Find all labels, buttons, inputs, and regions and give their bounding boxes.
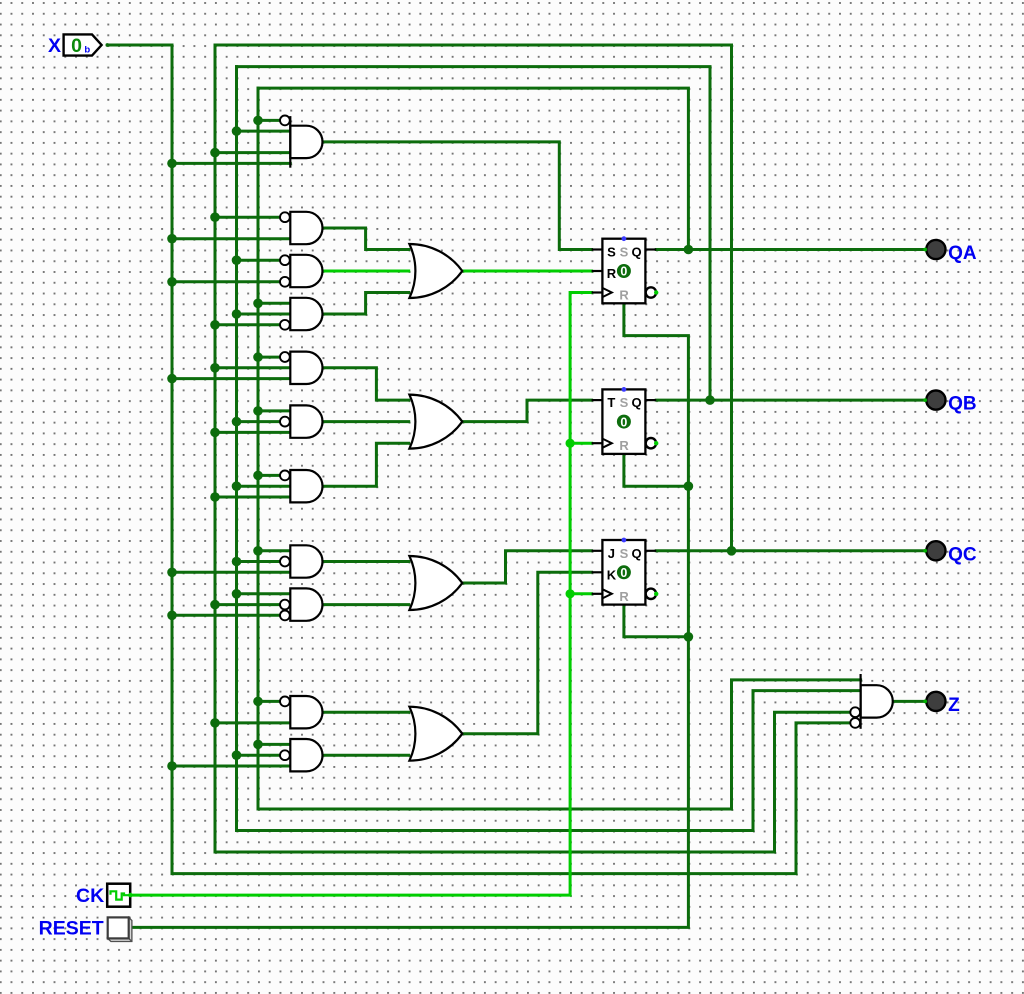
OR gate OR1 bbox=[409, 244, 462, 298]
LED QB bbox=[923, 391, 976, 415]
junction QB bus row 45 bbox=[232, 481, 242, 491]
junction X bus row 71 bbox=[167, 761, 177, 771]
wire FF2 Q to LED QB bbox=[656, 399, 925, 402]
junction QB bus row 29 bbox=[232, 309, 242, 319]
junction QA bus row 11 bbox=[253, 116, 263, 126]
T flip-flop U2 bbox=[592, 387, 659, 454]
junction QC bus row 46 bbox=[210, 492, 220, 502]
AND gate G2 (2-input, input 1 inverted) bbox=[280, 212, 322, 244]
wire QA bus tap row 69 bbox=[258, 743, 290, 746]
wire QB bus tap row 70 bbox=[237, 754, 280, 757]
svg-text:S: S bbox=[620, 546, 629, 561]
AND gate U5 for output Z (4-input, inputs 3 and 4 inverted) bbox=[850, 674, 892, 729]
junction X bus row 26 bbox=[167, 277, 177, 287]
junction QA bus row 51 bbox=[253, 546, 263, 556]
wire QC bus tap row 40 bbox=[215, 431, 290, 434]
svg-text:K: K bbox=[607, 567, 617, 582]
wire QA bus tap row 33 bbox=[258, 356, 280, 359]
junction QB bus row 12 bbox=[232, 126, 242, 136]
wire G10 output to OR4 input 1 bbox=[323, 711, 409, 714]
AND gate G3 (2-input, both inputs inverted) bbox=[280, 255, 322, 287]
AND gate G8 (3-input, input 2 inverted) bbox=[280, 545, 323, 577]
LED QC bbox=[923, 541, 977, 565]
junction QB bus row 39 bbox=[232, 417, 242, 427]
svg-text:Q: Q bbox=[631, 245, 641, 260]
wire FF1 Q to LED QA bbox=[656, 248, 925, 251]
wire QC feedback: top run, down to QC output line bbox=[215, 45, 732, 551]
wire X bus tap row 57 bbox=[172, 614, 280, 617]
wire OR1 output to FF1 R input (high) bbox=[463, 270, 592, 273]
AND gate G6 (3-input, input 2 inverted) bbox=[280, 405, 323, 437]
wire QC bus tap row 30 bbox=[215, 323, 280, 326]
J-K flip-flop U3 bbox=[592, 538, 659, 605]
LED Z bbox=[923, 692, 960, 716]
wire QB bus vertical and bottom run to Z gate input 2 bbox=[237, 67, 861, 831]
junction QC bus row 56 bbox=[210, 600, 220, 610]
svg-text:0: 0 bbox=[620, 415, 627, 429]
wire CK tap to FF2 clock input bbox=[570, 442, 592, 445]
wire Z gate output to LED Z bbox=[893, 700, 925, 703]
svg-text:Q: Q bbox=[631, 395, 641, 410]
AND gate G10 (2-input, input 1 inverted) bbox=[280, 696, 323, 728]
junction QA bus row 38 bbox=[253, 406, 263, 416]
svg-text:R: R bbox=[619, 589, 629, 604]
wire QC bus tap row 46 bbox=[215, 496, 290, 499]
junction X bus row 15 bbox=[167, 159, 177, 169]
wire QB bus tap row 55 bbox=[237, 592, 291, 595]
junction QC bus row 14 bbox=[210, 148, 220, 158]
OR gate OR2 bbox=[409, 395, 462, 449]
wire QC bus tap row 20 bbox=[215, 216, 280, 219]
wire QB bus tap row 45 bbox=[237, 485, 291, 488]
svg-text:R: R bbox=[619, 288, 629, 303]
svg-text:QC: QC bbox=[948, 544, 977, 565]
wire QA bus tap row 65 bbox=[258, 700, 280, 703]
wire QB bus tap row 24 bbox=[237, 259, 280, 262]
wire QB bus tap row 39 bbox=[237, 420, 280, 423]
wire RESET tap to FF2 async reset bbox=[624, 454, 689, 486]
junction QA bus row 65 bbox=[253, 697, 263, 707]
wire G6 output to OR2 input 2 bbox=[323, 420, 409, 423]
wire QA bus tap row 28 bbox=[258, 302, 290, 305]
wire RESET net: button to FF1 async reset bbox=[131, 303, 689, 927]
AND gate G9 (3-input, inputs 2 and 3 inverted) bbox=[280, 588, 322, 620]
svg-text:R: R bbox=[619, 438, 629, 453]
wire QB bus tap row 52 bbox=[237, 560, 280, 563]
svg-text:0: 0 bbox=[620, 265, 627, 279]
wire RESET tap to FF3 async reset bbox=[624, 605, 689, 637]
wire QA bus tap row 44 bbox=[258, 474, 280, 477]
junction RESET chain at FF2 bbox=[684, 481, 694, 491]
LED QA bbox=[923, 240, 977, 264]
clock input CK bbox=[76, 884, 133, 907]
wire X bus tap row 22 bbox=[172, 237, 290, 240]
svg-text:QA: QA bbox=[948, 243, 977, 264]
junction X bus row 53 bbox=[167, 568, 177, 578]
wire QC bus tap row 14 bbox=[215, 151, 290, 154]
wire QA feedback: top run, down to QA output line bbox=[258, 88, 688, 249]
svg-text:CK: CK bbox=[76, 885, 104, 907]
junction QA feedback on QA output line bbox=[684, 245, 694, 255]
wire X net: pin to bus, bottom run to Z gate input 4 bbox=[107, 45, 850, 874]
wire X bus tap row 26 bbox=[172, 280, 280, 283]
wire G5 output to OR2 input 1 bbox=[323, 368, 409, 400]
S-R flip-flop U1 bbox=[592, 236, 659, 303]
junction QC feedback on QC output line bbox=[727, 546, 737, 556]
svg-text:0: 0 bbox=[620, 566, 627, 580]
wire G3 output to OR1 input 2 (high) bbox=[323, 270, 409, 273]
svg-text:R: R bbox=[607, 266, 617, 281]
svg-text:RESET: RESET bbox=[39, 917, 104, 939]
OR gate OR4 bbox=[409, 707, 462, 761]
wire QA bus tap row 11 bbox=[258, 119, 280, 122]
wire QA bus tap row 38 bbox=[258, 409, 290, 412]
wire QC bus vertical and bottom run to Z gate input 3 bbox=[215, 45, 850, 852]
wire QB feedback: top run, down to QB output line bbox=[237, 67, 711, 401]
wire QC bus tap row 56 bbox=[215, 603, 280, 606]
junction CK net at FF2 clock bbox=[566, 439, 575, 448]
AND gate G7 (3-input, input 1 inverted) bbox=[280, 470, 323, 502]
wire QA bus vertical and bottom run to Z gate input 1 bbox=[258, 88, 861, 809]
wire X bus tap row 53 bbox=[172, 571, 290, 574]
svg-text:S: S bbox=[607, 245, 616, 260]
junction QC bus row 40 bbox=[210, 428, 220, 438]
wire QB bus tap row 12 bbox=[237, 130, 291, 133]
wire G9 output to OR3 input 2 bbox=[323, 603, 409, 606]
wire QC bus tap row 34 bbox=[215, 366, 290, 369]
svg-text:QB: QB bbox=[948, 394, 977, 415]
junction CK net at FF3 clock bbox=[566, 589, 575, 598]
svg-text:S: S bbox=[620, 245, 629, 260]
junction QC bus row 30 bbox=[210, 320, 220, 330]
svg-text:0: 0 bbox=[71, 35, 82, 57]
wire OR3 output to FF3 J input bbox=[463, 551, 592, 583]
wire G4 output to OR1 input 3 bbox=[323, 293, 409, 315]
AND gate G4 (3-input, input 3 inverted) bbox=[280, 298, 323, 330]
junction QC bus row 20 bbox=[210, 212, 220, 222]
junction QC bus row 67 bbox=[210, 718, 220, 728]
junction QB bus row 55 bbox=[232, 589, 242, 599]
wire OR4 output to FF3 K input bbox=[463, 572, 592, 733]
wire CK tap to FF3 clock input bbox=[570, 592, 592, 595]
wire OR2 output to FF2 T input bbox=[463, 400, 592, 422]
junction QA bus row 44 bbox=[253, 471, 263, 481]
junction QB feedback on QB output line bbox=[705, 395, 715, 405]
wire G7 output to OR2 input 3 bbox=[323, 443, 409, 486]
svg-text:X: X bbox=[48, 35, 61, 57]
OR gate OR3 bbox=[409, 556, 462, 610]
svg-text:J: J bbox=[608, 546, 615, 561]
wire QB bus tap row 29 bbox=[237, 313, 291, 316]
AND gate G11 (3-input, input 2 inverted) bbox=[280, 739, 323, 771]
svg-text:Q: Q bbox=[631, 546, 641, 561]
AND gate G1 (4-input, input 1 inverted) bbox=[280, 116, 322, 168]
svg-text:b: b bbox=[84, 45, 90, 56]
wire X bus tap row 71 bbox=[172, 765, 290, 768]
junction RESET chain at FF3 bbox=[684, 632, 694, 642]
junction QB bus row 70 bbox=[232, 750, 242, 760]
wire QA bus tap row 51 bbox=[258, 549, 290, 552]
junction QC bus row 34 bbox=[210, 363, 220, 373]
svg-text:Z: Z bbox=[948, 695, 960, 716]
push button input RESET bbox=[39, 917, 132, 941]
wire G1 output to FF1 S input bbox=[323, 142, 592, 250]
wire FF3 Q to LED QC bbox=[656, 549, 925, 552]
wire X bus tap row 35 bbox=[172, 377, 290, 380]
junction QA bus row 28 bbox=[253, 299, 263, 309]
junction X bus row 35 bbox=[167, 374, 177, 384]
junction X bus row 57 bbox=[167, 611, 177, 621]
wire G8 output to OR3 input 1 bbox=[323, 560, 409, 563]
svg-text:S: S bbox=[620, 395, 629, 410]
wire G2 output to OR1 input 1 bbox=[323, 228, 409, 250]
wire X bus tap row 15 bbox=[172, 162, 290, 165]
wire QC bus tap row 67 bbox=[215, 721, 290, 724]
junction QB bus row 52 bbox=[232, 557, 242, 567]
junction QA bus row 69 bbox=[253, 740, 263, 750]
AND gate G5 (3-input, input 1 inverted) bbox=[280, 352, 323, 384]
svg-text:T: T bbox=[607, 395, 615, 410]
wire G11 output to OR4 input 2 bbox=[323, 754, 409, 757]
junction X bus row 22 bbox=[167, 234, 177, 244]
junction QA bus row 33 bbox=[253, 352, 263, 362]
junction QB bus row 24 bbox=[232, 255, 242, 265]
wire CK net: clock to FF1 clock input bbox=[131, 293, 592, 896]
input pin X with value 0b bbox=[48, 34, 109, 57]
